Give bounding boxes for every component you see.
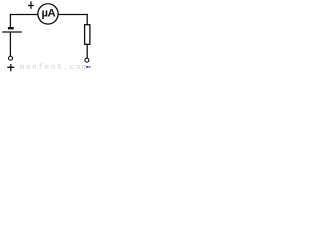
wire top-left horizontal segment [10, 14, 38, 16]
watermark end marks [86, 66, 88, 68]
plus label at left terminal [7, 64, 14, 71]
wire right vertical (top wire to resistor) [86, 14, 88, 25]
wire left vertical (battery to terminal) [9, 32, 11, 56]
svg-text:µA: µA [41, 7, 55, 19]
svg-text:manfen5.com: manfen5.com [20, 64, 89, 72]
wire left vertical (top wire to battery) [9, 14, 11, 27]
terminal right (open circle) [85, 58, 89, 62]
background [0, 0, 93, 72]
microammeter U1 (circle) [38, 4, 58, 24]
wire top-right horizontal segment [59, 14, 88, 16]
wire right vertical (resistor to terminal) [86, 44, 88, 58]
plus polarity label at ammeter [28, 1, 34, 8]
terminal left (open circle) [9, 56, 13, 60]
battery B1 short thick electrode (top) [8, 27, 14, 29]
resistor R (box) [85, 25, 90, 45]
battery B1 long thin electrode (bottom) [2, 31, 22, 33]
